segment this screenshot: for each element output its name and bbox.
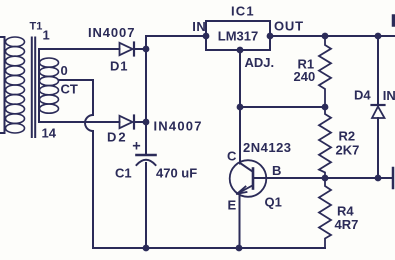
transistor Q1 emitter diagonal with arrow [237, 186, 253, 194]
resistor R4 [319, 178, 331, 248]
node R1/R2 junction [322, 104, 329, 111]
wire rectifier output up [146, 36, 206, 122]
svg-text:D4: D4 [354, 88, 371, 103]
svg-text:4R7: 4R7 [335, 217, 359, 232]
node ADJ junction [237, 104, 244, 111]
svg-text:IC1: IC1 [231, 4, 255, 19]
transformer T1 core [31, 38, 33, 138]
wire secondary pin 14 lead [39, 121, 120, 123]
wire hop CT over D2 wire [85, 115, 93, 131]
wire secondary CT lead [59, 80, 94, 115]
node R1 top junction [322, 33, 329, 40]
svg-text:2K7: 2K7 [336, 142, 360, 157]
partial label glyph at top right edge [392, 16, 395, 25]
node C1 ground junction [143, 245, 150, 252]
transformer T1 secondary winding [40, 58, 59, 113]
node R2/R4 base junction [322, 175, 329, 182]
transformer T1 primary winding [6, 37, 25, 133]
wire primary leads and bus [0, 37, 5, 133]
transistor Q1 body [230, 160, 267, 197]
wire ground rail [93, 247, 325, 249]
wire ADJ down [239, 50, 241, 107]
diode D2 [120, 116, 147, 129]
svg-text:IN4007: IN4007 [154, 119, 203, 134]
svg-text:ADJ.: ADJ. [245, 55, 275, 70]
transistor Q1 collector diagonal [240, 163, 253, 172]
svg-text:E: E [228, 197, 237, 212]
svg-text:T1: T1 [30, 20, 43, 32]
resistor R1 [319, 36, 331, 107]
svg-text:14: 14 [42, 126, 57, 141]
wire top rail to D4 [377, 36, 379, 105]
svg-text:B: B [272, 163, 281, 178]
wire Q1 emitter to ground rail [239, 194, 241, 249]
component stub at right edge [392, 168, 395, 188]
resistor R2 [319, 107, 331, 178]
svg-text:IN4007: IN4007 [88, 25, 135, 40]
wire OUT rail [270, 35, 395, 37]
node IC1 ADJ pin [237, 47, 244, 54]
svg-text:240: 240 [294, 69, 316, 84]
capacitor C1 [137, 155, 156, 165]
wire C1 to ground rail [145, 163, 147, 248]
node emitter ground junction [236, 245, 243, 252]
transistor Q1 base bar [252, 169, 255, 189]
svg-text:LM317: LM317 [218, 29, 258, 44]
node D1 cathode junction [143, 46, 150, 53]
wire ADJ node to Q1 collector [239, 107, 241, 164]
node D2 cathode junction [143, 119, 150, 126]
wire secondary bus pin 1 to pin 14 [39, 49, 120, 122]
node IC1 OUT pin [267, 33, 274, 40]
svg-text:C1: C1 [115, 166, 132, 181]
wire Q1 base to R2/R4 node [254, 177, 392, 179]
svg-text:C: C [227, 149, 237, 164]
svg-text:OUT: OUT [274, 19, 304, 34]
node D4 anode junction [375, 175, 382, 182]
svg-text:IN: IN [192, 19, 206, 34]
svg-text:1: 1 [43, 28, 50, 43]
svg-text:D2: D2 [107, 130, 128, 145]
node D4 top junction [375, 33, 382, 40]
svg-text:2N4123: 2N4123 [243, 140, 292, 155]
svg-text:470 uF: 470 uF [156, 166, 197, 181]
svg-text:+: + [132, 139, 140, 155]
svg-text:Q1: Q1 [265, 195, 282, 210]
op-amp regulator IC1 LM317 box [206, 21, 270, 50]
svg-text:0: 0 [61, 63, 68, 78]
svg-text:CT: CT [61, 82, 78, 97]
diode D1 [120, 43, 147, 56]
wire ADJ to R1/R2 node [240, 106, 325, 108]
node IC1 IN pin [203, 33, 210, 40]
svg-text:D1: D1 [110, 58, 128, 73]
wire D2 node down to C1 [145, 122, 147, 154]
diode D4 [372, 105, 385, 178]
svg-text:IN: IN [383, 88, 395, 103]
svg-text:R2: R2 [339, 129, 356, 144]
wire CT to ground rail [92, 131, 94, 248]
